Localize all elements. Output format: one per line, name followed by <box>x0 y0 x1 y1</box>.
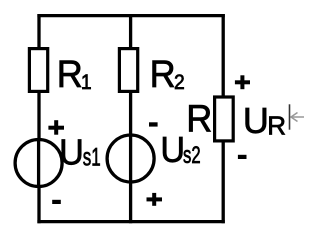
voltage source Us2 <box>107 135 154 182</box>
svg-text:U: U <box>59 133 84 173</box>
minus sign below resistor R <box>238 155 247 159</box>
label R1 <box>57 52 92 95</box>
svg-text:R: R <box>186 97 212 140</box>
svg-text:R: R <box>150 52 176 95</box>
svg-text:2: 2 <box>174 70 185 94</box>
wire right branch vertical <box>222 14 225 223</box>
wire left branch vertical <box>37 14 40 223</box>
plus sign below Us2 <box>147 193 163 206</box>
label R2 <box>150 52 185 95</box>
svg-text:U: U <box>243 100 269 141</box>
svg-text:s1: s1 <box>83 143 101 171</box>
plus sign above Us1 <box>48 120 64 135</box>
wire top horizontal <box>37 14 224 17</box>
minus sign below Us1 <box>52 200 61 204</box>
annotation arrow (left arrow from bar) at right edge <box>290 104 305 129</box>
resistor R (right) <box>215 97 234 141</box>
label UR <box>243 100 286 141</box>
svg-text:1: 1 <box>81 70 92 94</box>
wire through Us1 <box>37 138 40 188</box>
wire middle branch vertical <box>129 14 132 223</box>
label Us1 <box>59 133 101 173</box>
svg-text:s2: s2 <box>183 142 201 169</box>
svg-text:R: R <box>267 111 286 141</box>
minus sign above Us2 <box>149 122 158 126</box>
svg-text:R: R <box>57 52 83 95</box>
svg-text:U: U <box>160 130 185 170</box>
label Us2 <box>160 130 200 170</box>
resistor R1 <box>29 49 47 92</box>
wire bottom horizontal <box>37 220 224 223</box>
plus sign above resistor R <box>235 75 250 89</box>
wire through Us2 <box>129 134 132 184</box>
resistor R2 <box>119 49 137 92</box>
voltage source Us1 <box>15 140 62 187</box>
